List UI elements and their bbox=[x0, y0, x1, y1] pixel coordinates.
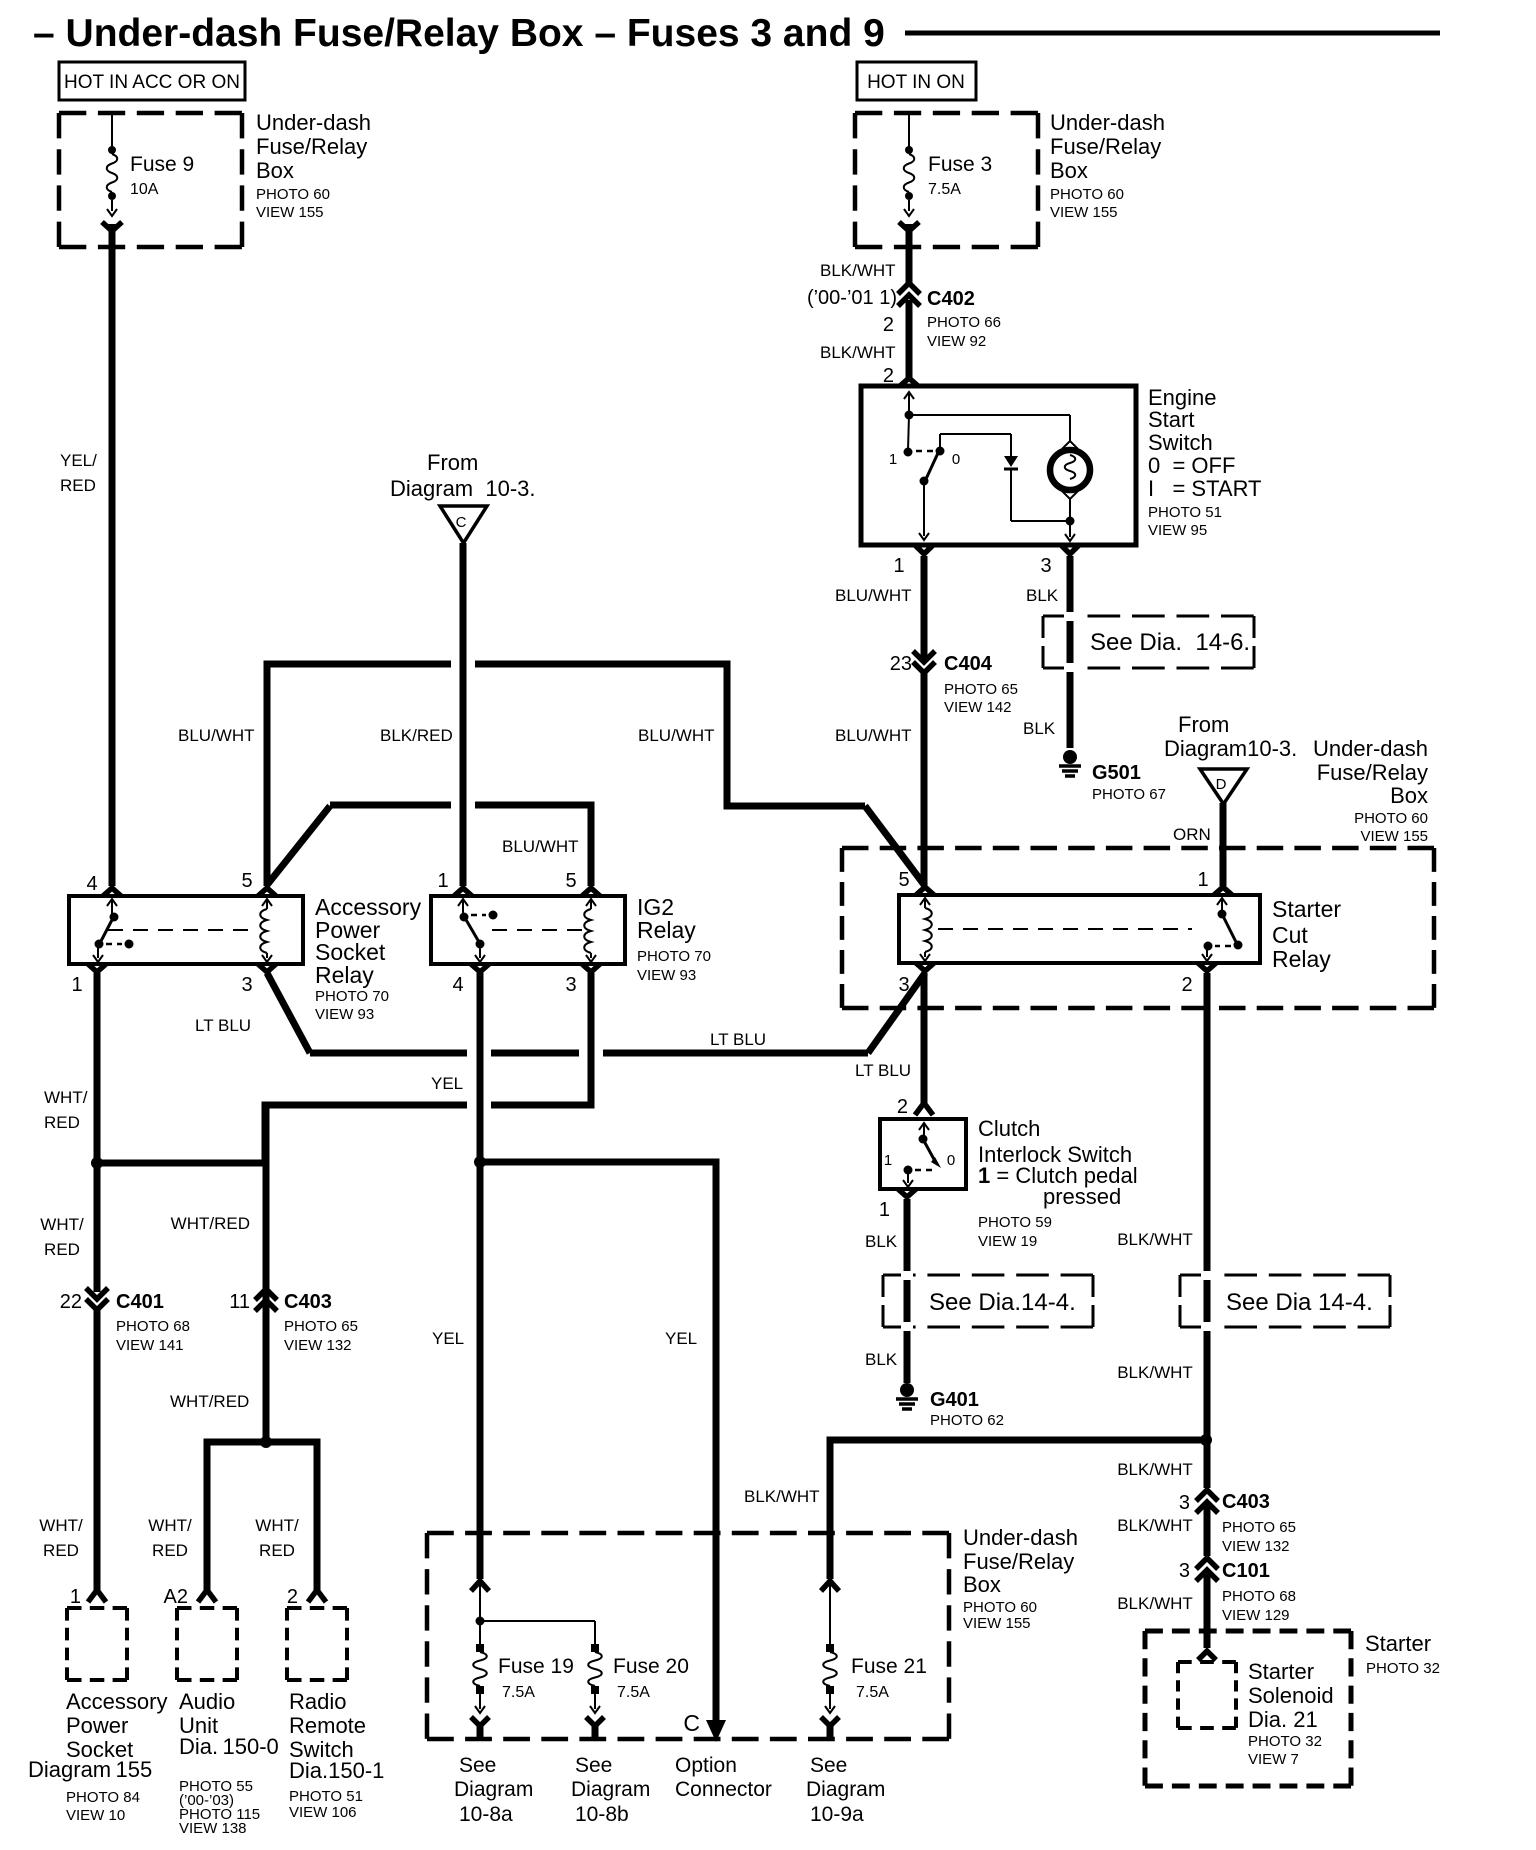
svg-text:Dia. 150-0: Dia. 150-0 bbox=[179, 1734, 279, 1759]
label under-dash fuse/relay box right bbox=[1050, 110, 1165, 221]
option connector wire C bbox=[683, 1710, 726, 1742]
fuse F9 (Fuse 9 10A) bbox=[107, 114, 194, 216]
svg-text:Solenoid: Solenoid bbox=[1248, 1683, 1334, 1708]
clutch interlock switch pin 1 bbox=[879, 1189, 916, 1221]
svg-text:Dia. 21: Dia. 21 bbox=[1248, 1707, 1318, 1732]
svg-text:VIEW 141: VIEW 141 bbox=[116, 1337, 184, 1354]
svg-text:C403: C403 bbox=[284, 1291, 332, 1313]
svg-text:BLU/WHT: BLU/WHT bbox=[835, 586, 912, 605]
svg-text:C401: C401 bbox=[116, 1291, 164, 1313]
label under-dash fuse/relay box (starter cut relay) bbox=[1313, 736, 1428, 845]
wire LT BLU starter cut relay pin3 to clutch interlock switch pin 2 bbox=[855, 973, 933, 1118]
svg-text:3: 3 bbox=[565, 974, 576, 996]
wire YEL/RED fuse9 to APS relay pin 4 bbox=[60, 222, 122, 886]
svg-text:23: 23 bbox=[890, 653, 912, 675]
svg-text:Fuse 21: Fuse 21 bbox=[851, 1655, 927, 1678]
wire BLK/WHT C101 to starter solenoid bbox=[1117, 1574, 1216, 1660]
svg-text:LT BLU: LT BLU bbox=[855, 1061, 911, 1080]
svg-text:WHT/: WHT/ bbox=[39, 1516, 83, 1535]
svg-text:C: C bbox=[456, 514, 467, 531]
svg-text:Clutch: Clutch bbox=[978, 1116, 1040, 1141]
wire LT BLU APS pin3 to starter cut relay pin3 bbox=[195, 973, 925, 1053]
svg-text:See Dia 14-4.: See Dia 14-4. bbox=[1226, 1289, 1373, 1316]
svg-text:PHOTO 70: PHOTO 70 bbox=[637, 948, 711, 965]
label under-dash fuse/relay box bottom bbox=[963, 1525, 1078, 1632]
svg-text:Diagram: Diagram bbox=[454, 1778, 533, 1801]
svg-text:BLK: BLK bbox=[865, 1350, 898, 1369]
wire BLK/WHT C402 to engine start switch pin 2 bbox=[820, 300, 918, 387]
from diagram 10-3 triangle C bbox=[390, 450, 536, 543]
audio unit dashed box bbox=[177, 1608, 279, 1837]
connector C101 pin 3 bbox=[1179, 1558, 1296, 1624]
node junction WHT/RED bbox=[91, 1157, 103, 1169]
svg-text:YEL/: YEL/ bbox=[60, 451, 97, 470]
svg-text:See: See bbox=[459, 1754, 496, 1777]
svg-text:2: 2 bbox=[287, 1586, 298, 1608]
radio remote switch dashed box bbox=[287, 1608, 384, 1821]
svg-text:Dia.150-1: Dia.150-1 bbox=[289, 1758, 384, 1783]
APS relay pin 3 bbox=[241, 964, 276, 996]
svg-text:3: 3 bbox=[1040, 555, 1051, 577]
under-dash fuse/relay box (left, dashed) bbox=[59, 113, 242, 247]
svg-text:VIEW 155: VIEW 155 bbox=[1050, 204, 1118, 221]
starter cut relay pin 2 bbox=[1181, 963, 1216, 996]
svg-text:BLK/WHT: BLK/WHT bbox=[820, 261, 896, 280]
wire ORN triangle D to starter cut relay pin 1 bbox=[1173, 803, 1223, 886]
svg-text:LT BLU: LT BLU bbox=[710, 1030, 766, 1049]
starter cut relay coil bbox=[920, 898, 1192, 961]
fuse F21 (Fuse 21 7.5A) bbox=[821, 1581, 927, 1740]
svg-text:VIEW 93: VIEW 93 bbox=[637, 967, 696, 984]
IG2 relay bbox=[431, 896, 625, 964]
svg-text:0: 0 bbox=[947, 1152, 955, 1169]
svg-text:WHT/: WHT/ bbox=[44, 1088, 88, 1107]
svg-text:PHOTO 60: PHOTO 60 bbox=[1354, 810, 1428, 827]
svg-text:BLU/WHT: BLU/WHT bbox=[502, 837, 579, 856]
starter dashed box bbox=[1145, 1631, 1440, 1786]
svg-text:A2: A2 bbox=[164, 1586, 188, 1608]
svg-text:10-8b: 10-8b bbox=[575, 1803, 629, 1826]
svg-text:BLK/RED: BLK/RED bbox=[380, 726, 453, 745]
svg-text:RED: RED bbox=[60, 476, 96, 495]
svg-text:PHOTO 60: PHOTO 60 bbox=[963, 1599, 1037, 1616]
svg-text:I = START: I = START bbox=[1148, 476, 1262, 501]
wire WHT/RED vertical to C403 bbox=[170, 1105, 266, 1438]
svg-text:5: 5 bbox=[241, 870, 252, 892]
svg-text:See: See bbox=[810, 1754, 847, 1777]
accessory power socket dashed box bbox=[28, 1608, 167, 1824]
svg-text:PHOTO 66: PHOTO 66 bbox=[927, 314, 1001, 331]
wire BLU/WHT ESS pin1 to C404 bbox=[835, 556, 924, 660]
fuse F20 (Fuse 20 7.5A) bbox=[586, 1621, 689, 1740]
diode inside engine start switch bbox=[940, 434, 1066, 521]
svg-text:C: C bbox=[683, 1710, 700, 1736]
wire BLK/WHT fuse3 to C402 bbox=[820, 222, 919, 285]
fuse F19 (Fuse 19 7.5A) bbox=[471, 1581, 595, 1740]
svg-text:RED: RED bbox=[259, 1541, 295, 1560]
starter cut relay switch contact bbox=[1202, 898, 1243, 961]
svg-text:BLU/WHT: BLU/WHT bbox=[835, 726, 912, 745]
svg-text:G401: G401 bbox=[930, 1389, 979, 1411]
wire BLU/WHT APS pin5 to IG2 pin5 bbox=[267, 805, 591, 886]
svg-text:BLK/WHT: BLK/WHT bbox=[820, 343, 896, 362]
label see diagram 10-8a bbox=[454, 1754, 533, 1826]
svg-text:PHOTO 68: PHOTO 68 bbox=[1222, 1588, 1296, 1605]
svg-text:Diagram 10-3.: Diagram 10-3. bbox=[390, 476, 536, 501]
svg-text:7.5A: 7.5A bbox=[856, 1684, 889, 1701]
svg-text:BLK: BLK bbox=[865, 1232, 898, 1251]
engine start switch pin 1 bbox=[893, 545, 933, 577]
svg-text:2: 2 bbox=[897, 1096, 908, 1118]
audio unit pin A2 bbox=[164, 1586, 216, 1608]
label engine start switch bbox=[1148, 385, 1262, 539]
starter cut relay bbox=[899, 895, 1260, 963]
accessory power socket pin 1 bbox=[70, 1586, 106, 1608]
svg-text:BLK/WHT: BLK/WHT bbox=[1117, 1460, 1193, 1479]
svg-text:Start: Start bbox=[1148, 407, 1194, 432]
svg-text:10-9a: 10-9a bbox=[810, 1803, 864, 1826]
svg-text:YEL: YEL bbox=[665, 1329, 697, 1348]
svg-text:Under-dash: Under-dash bbox=[256, 110, 371, 135]
svg-text:4: 4 bbox=[86, 873, 97, 895]
node junction YEL bbox=[474, 1156, 486, 1168]
svg-text:Option: Option bbox=[675, 1754, 737, 1777]
svg-text:VIEW 155: VIEW 155 bbox=[256, 204, 324, 221]
svg-text:Box: Box bbox=[963, 1572, 1001, 1597]
svg-text:C403: C403 bbox=[1222, 1491, 1270, 1513]
svg-text:10A: 10A bbox=[130, 181, 159, 198]
label HOT IN ACC OR ON bbox=[59, 62, 245, 100]
svg-text:7.5A: 7.5A bbox=[928, 181, 961, 198]
title rule bbox=[905, 31, 1440, 36]
label starter cut relay bbox=[1272, 896, 1341, 972]
svg-text:PHOTO 59: PHOTO 59 bbox=[978, 1214, 1052, 1231]
connector C403 pin 3 (right) bbox=[1179, 1490, 1296, 1555]
svg-text:Fuse/Relay: Fuse/Relay bbox=[963, 1549, 1074, 1574]
svg-text:Fuse/Relay: Fuse/Relay bbox=[1050, 134, 1161, 159]
svg-text:Remote: Remote bbox=[289, 1713, 366, 1738]
IG2 relay pin 3 bbox=[565, 964, 600, 996]
svg-text:1: 1 bbox=[893, 555, 904, 577]
svg-text:1: 1 bbox=[889, 451, 897, 468]
svg-text:1: 1 bbox=[1197, 869, 1208, 891]
start switch contacts (1 / 0) bbox=[889, 447, 960, 541]
svg-text:VIEW 142: VIEW 142 bbox=[944, 699, 1012, 716]
APS relay pin 1 bbox=[71, 964, 106, 996]
under-dash fuse/relay box (right, dashed) bbox=[855, 113, 1038, 247]
wire BLK/WHT C403 to C101 bbox=[1117, 1506, 1207, 1556]
svg-text:See Dia.14-4.: See Dia.14-4. bbox=[929, 1289, 1076, 1316]
svg-text:RED: RED bbox=[43, 1541, 79, 1560]
svg-text:0 = OFF: 0 = OFF bbox=[1148, 453, 1235, 478]
svg-text:BLK/WHT: BLK/WHT bbox=[744, 1487, 820, 1506]
svg-text:Cut: Cut bbox=[1272, 922, 1308, 948]
APS relay coil bbox=[108, 899, 272, 962]
from diagram 10-3 triangle D bbox=[1164, 712, 1297, 804]
svg-text:Radio: Radio bbox=[289, 1689, 346, 1714]
svg-text:Fuse/Relay: Fuse/Relay bbox=[1317, 760, 1428, 785]
starter cut relay pin 5 bbox=[898, 869, 934, 895]
connector C402 pin 2 bbox=[807, 283, 1001, 350]
node junction WHT/RED split to audio unit and radio remote switch bbox=[148, 1436, 317, 1591]
svg-text:Under-dash: Under-dash bbox=[963, 1525, 1078, 1550]
svg-text:Starter: Starter bbox=[1272, 896, 1341, 922]
svg-text:1: 1 bbox=[884, 1152, 892, 1169]
svg-text:1: 1 bbox=[71, 974, 82, 996]
svg-text:VIEW 106: VIEW 106 bbox=[289, 1804, 357, 1821]
IG2 relay switch contact bbox=[458, 899, 498, 962]
svg-text:PHOTO 65: PHOTO 65 bbox=[284, 1318, 358, 1335]
svg-text:7.5A: 7.5A bbox=[502, 1684, 535, 1701]
svg-text:VIEW 155: VIEW 155 bbox=[1360, 828, 1428, 845]
APS relay pin 4 bbox=[86, 873, 121, 896]
svg-text:BLK: BLK bbox=[1023, 719, 1056, 738]
svg-text:PHOTO 51: PHOTO 51 bbox=[289, 1788, 363, 1805]
svg-text:Box: Box bbox=[256, 158, 294, 183]
svg-text:From: From bbox=[1178, 712, 1229, 737]
svg-text:Audio: Audio bbox=[179, 1689, 235, 1714]
svg-text:WHT/RED: WHT/RED bbox=[171, 1214, 250, 1233]
svg-text:Starter: Starter bbox=[1365, 1631, 1431, 1656]
svg-text:Diagram: Diagram bbox=[571, 1778, 650, 1801]
radio remote switch pin 2 bbox=[287, 1586, 326, 1608]
svg-text:pressed: pressed bbox=[1043, 1184, 1121, 1209]
svg-text:Accessory: Accessory bbox=[66, 1689, 167, 1714]
svg-text:BLU/WHT: BLU/WHT bbox=[178, 726, 255, 745]
node junction BLK/WHT bbox=[1200, 1434, 1212, 1446]
svg-text:VIEW 93: VIEW 93 bbox=[315, 1006, 374, 1023]
wire WHT/RED branch to IG2 pin3 bbox=[97, 973, 591, 1233]
svg-text:Fuse 20: Fuse 20 bbox=[613, 1655, 689, 1678]
svg-text:2: 2 bbox=[1181, 974, 1192, 996]
svg-text:Relay: Relay bbox=[1272, 946, 1331, 972]
wire BLK/WHT branch to fuse 21 bbox=[744, 1440, 1206, 1579]
IG2 relay pin 5 bbox=[565, 870, 600, 896]
svg-text:WHT/RED: WHT/RED bbox=[170, 1392, 249, 1411]
svg-text:1: 1 bbox=[70, 1586, 81, 1608]
svg-text:C404: C404 bbox=[944, 653, 993, 675]
svg-text:PHOTO 32: PHOTO 32 bbox=[1366, 1660, 1440, 1677]
see dia 14-4 box right bbox=[1180, 1271, 1390, 1331]
svg-text:22: 22 bbox=[60, 1291, 82, 1313]
see dia 14-4 box left bbox=[883, 1271, 1093, 1331]
wire BLU/WHT C404 to starter cut relay pin 5 bbox=[835, 670, 924, 886]
svg-text:YEL: YEL bbox=[431, 1074, 463, 1093]
wire YEL IG2 pin4 down to fuse 19 bbox=[431, 973, 480, 1579]
svg-text:Fuse 19: Fuse 19 bbox=[498, 1655, 574, 1678]
svg-text:VIEW 138: VIEW 138 bbox=[179, 1820, 247, 1837]
svg-text:Relay: Relay bbox=[315, 962, 374, 988]
svg-text:BLK/WHT: BLK/WHT bbox=[1117, 1594, 1193, 1613]
label IG2 relay bbox=[637, 894, 711, 984]
label clutch interlock switch bbox=[978, 1116, 1138, 1250]
see dia 14-6 box bbox=[1043, 612, 1254, 672]
svg-text:Relay: Relay bbox=[637, 917, 696, 943]
svg-text:HOT IN ON: HOT IN ON bbox=[867, 72, 965, 93]
svg-text:VIEW 155: VIEW 155 bbox=[963, 1615, 1031, 1632]
svg-text:RED: RED bbox=[152, 1541, 188, 1560]
svg-text:WHT/: WHT/ bbox=[148, 1516, 192, 1535]
svg-text:BLU/WHT: BLU/WHT bbox=[638, 726, 715, 745]
IG2 relay pin 4 bbox=[452, 964, 489, 996]
svg-text:ORN: ORN bbox=[1173, 825, 1211, 844]
svg-text:VIEW 132: VIEW 132 bbox=[1222, 1538, 1290, 1555]
svg-text:3: 3 bbox=[1179, 1560, 1190, 1582]
svg-text:VIEW 7: VIEW 7 bbox=[1248, 1751, 1299, 1768]
svg-text:BLK/WHT: BLK/WHT bbox=[1117, 1516, 1193, 1535]
svg-text:0: 0 bbox=[952, 451, 960, 468]
svg-text:– Under-dash Fuse/Relay Box –: – Under-dash Fuse/Relay Box – Fuses 3 an… bbox=[33, 12, 885, 55]
svg-text:C402: C402 bbox=[927, 288, 975, 310]
svg-text:Switch: Switch bbox=[1148, 430, 1213, 455]
label accessory power socket relay bbox=[315, 894, 422, 1023]
svg-text:Fuse/Relay: Fuse/Relay bbox=[256, 134, 367, 159]
svg-text:VIEW 10: VIEW 10 bbox=[66, 1807, 125, 1824]
svg-text:Power: Power bbox=[66, 1713, 128, 1738]
svg-text:G501: G501 bbox=[1092, 762, 1141, 784]
wire BLK/WHT starter cut relay pin2 down bbox=[1117, 973, 1207, 1488]
svg-text:WHT/: WHT/ bbox=[255, 1516, 299, 1535]
svg-text:From: From bbox=[427, 450, 478, 475]
svg-text:BLK: BLK bbox=[1026, 586, 1059, 605]
svg-text:PHOTO 65: PHOTO 65 bbox=[944, 681, 1018, 698]
svg-text:1: 1 bbox=[437, 870, 448, 892]
svg-text:WHT/: WHT/ bbox=[40, 1215, 84, 1234]
svg-text:D: D bbox=[1216, 776, 1227, 793]
svg-text:(’00-’01 1): (’00-’01 1) bbox=[807, 287, 897, 309]
svg-text:PHOTO 32: PHOTO 32 bbox=[1248, 1733, 1322, 1750]
label option connector bbox=[675, 1754, 772, 1801]
starter cut relay pin 1 bbox=[1197, 869, 1232, 895]
svg-text:Starter: Starter bbox=[1248, 1659, 1314, 1684]
IG2 relay pin 1 bbox=[437, 870, 472, 896]
svg-text:See Dia. 14-6.: See Dia. 14-6. bbox=[1090, 629, 1250, 656]
wire WHT/RED C401 to accessory power socket bbox=[39, 1215, 97, 1591]
svg-text:Under-dash: Under-dash bbox=[1050, 110, 1165, 135]
wire BLK ESS pin3 to G501 bbox=[1023, 556, 1070, 748]
svg-text:11: 11 bbox=[229, 1291, 250, 1313]
svg-text:3: 3 bbox=[241, 974, 252, 996]
svg-text:PHOTO 68: PHOTO 68 bbox=[116, 1318, 190, 1335]
fuse F3 (Fuse 3 7.5A) bbox=[904, 114, 992, 216]
starter solenoid dashed box bbox=[1178, 1659, 1334, 1768]
svg-text:PHOTO 51: PHOTO 51 bbox=[1148, 504, 1222, 521]
svg-text:PHOTO 60: PHOTO 60 bbox=[1050, 186, 1124, 203]
wire BLK/RED triangle C to IG2 relay pin 1 bbox=[380, 543, 463, 886]
svg-text:PHOTO 65: PHOTO 65 bbox=[1222, 1519, 1296, 1536]
svg-text:PHOTO 60: PHOTO 60 bbox=[256, 186, 330, 203]
APS relay pin 5 bbox=[241, 870, 276, 896]
wire WHT/RED APS pin1 down bbox=[44, 973, 97, 1292]
svg-text:Diagram 155: Diagram 155 bbox=[28, 1757, 152, 1782]
label see diagram 10-8b bbox=[571, 1754, 650, 1826]
starter cut relay dashed under-dash box bbox=[842, 848, 1434, 1008]
wire BLK clutch switch to G401 bbox=[865, 1199, 907, 1383]
svg-text:VIEW 132: VIEW 132 bbox=[284, 1337, 352, 1354]
svg-text:LT BLU: LT BLU bbox=[195, 1016, 251, 1035]
svg-text:Box: Box bbox=[1050, 158, 1088, 183]
engine start switch bbox=[861, 386, 1136, 545]
svg-text:RED: RED bbox=[44, 1240, 80, 1259]
svg-text:5: 5 bbox=[898, 869, 909, 891]
svg-text:Fuse 3: Fuse 3 bbox=[928, 153, 992, 176]
under-dash fuse/relay box (bottom, dashed) bbox=[427, 1533, 949, 1739]
ignition lamp inside engine start switch bbox=[1050, 441, 1090, 541]
APS relay switch contact bbox=[93, 899, 134, 962]
clutch interlock switch bbox=[880, 1119, 966, 1189]
svg-text:2: 2 bbox=[883, 314, 894, 336]
svg-text:VIEW 95: VIEW 95 bbox=[1148, 522, 1207, 539]
svg-text:BLK/WHT: BLK/WHT bbox=[1117, 1363, 1193, 1382]
svg-text:5: 5 bbox=[565, 870, 576, 892]
svg-text:Connector: Connector bbox=[675, 1778, 772, 1801]
svg-text:PHOTO 67: PHOTO 67 bbox=[1092, 786, 1166, 803]
svg-text:PHOTO 70: PHOTO 70 bbox=[315, 988, 389, 1005]
svg-text:BLK/WHT: BLK/WHT bbox=[1117, 1230, 1193, 1249]
label HOT IN ON bbox=[857, 62, 976, 100]
connector C404 pin 23 bbox=[890, 651, 1018, 716]
connector C401 pin 22 bbox=[60, 1288, 190, 1354]
svg-text:Fuse 9: Fuse 9 bbox=[130, 153, 194, 176]
ground G401 bbox=[896, 1383, 1004, 1429]
ground G501 bbox=[1059, 750, 1166, 803]
accessory power socket relay bbox=[69, 896, 303, 964]
svg-text:RED: RED bbox=[44, 1113, 80, 1132]
svg-text:YEL: YEL bbox=[432, 1329, 464, 1348]
svg-text:See: See bbox=[575, 1754, 612, 1777]
label see diagram 10-9a bbox=[806, 1754, 885, 1826]
connector C403 pin 11 bbox=[229, 1289, 358, 1354]
label under-dash fuse/relay box left bbox=[256, 110, 371, 221]
engine start switch pin 3 bbox=[1040, 545, 1079, 577]
svg-text:Box: Box bbox=[1390, 783, 1428, 808]
starter cut relay pin 3 bbox=[898, 963, 934, 996]
svg-text:1: 1 bbox=[879, 1199, 890, 1221]
svg-text:VIEW 19: VIEW 19 bbox=[978, 1233, 1037, 1250]
svg-text:3: 3 bbox=[1179, 1492, 1190, 1514]
svg-text:10-8a: 10-8a bbox=[459, 1803, 513, 1826]
svg-text:4: 4 bbox=[452, 974, 463, 996]
svg-text:VIEW 92: VIEW 92 bbox=[927, 333, 986, 350]
svg-text:VIEW 129: VIEW 129 bbox=[1222, 1607, 1290, 1624]
IG2 relay coil bbox=[492, 899, 596, 962]
svg-text:Diagram10-3.: Diagram10-3. bbox=[1164, 736, 1297, 761]
wire BLU/WHT upper run from APS pin5 bbox=[178, 664, 925, 886]
svg-text:PHOTO 62: PHOTO 62 bbox=[930, 1412, 1004, 1429]
svg-text:PHOTO 84: PHOTO 84 bbox=[66, 1789, 140, 1806]
svg-text:HOT IN ACC OR ON: HOT IN ACC OR ON bbox=[64, 72, 240, 93]
svg-text:C101: C101 bbox=[1222, 1560, 1270, 1582]
svg-text:Diagram: Diagram bbox=[806, 1778, 885, 1801]
svg-text:Under-dash: Under-dash bbox=[1313, 736, 1428, 761]
wire YEL branch to option connector bbox=[480, 1162, 716, 1726]
svg-text:7.5A: 7.5A bbox=[617, 1684, 650, 1701]
